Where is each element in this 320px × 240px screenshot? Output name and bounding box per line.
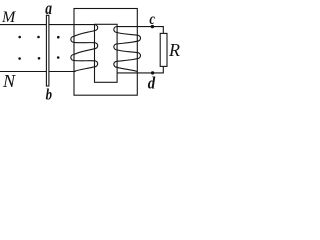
svg-text:N: N bbox=[2, 71, 16, 91]
svg-text:b: b bbox=[46, 86, 52, 101]
svg-text:a: a bbox=[45, 0, 52, 18]
svg-text:c: c bbox=[149, 11, 155, 28]
svg-text:R: R bbox=[168, 40, 180, 60]
svg-text:M: M bbox=[1, 9, 17, 26]
svg-text:d: d bbox=[148, 73, 156, 92]
